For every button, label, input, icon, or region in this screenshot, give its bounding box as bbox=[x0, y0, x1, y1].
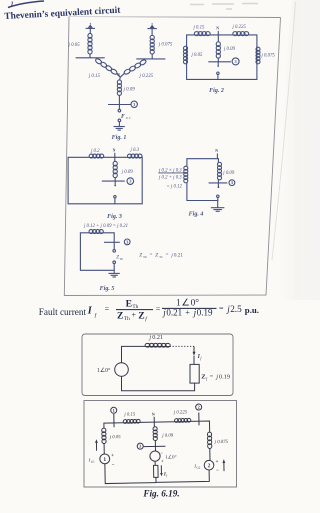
bus label 2 bbox=[196, 404, 202, 410]
svg-text:j 0.075: j 0.075 bbox=[261, 54, 276, 59]
svg-text:1∠0°: 1∠0° bbox=[165, 454, 176, 460]
bus 1 tick bbox=[113, 414, 115, 427]
svg-text:j 0.075: j 0.075 bbox=[158, 42, 173, 47]
inductor j0.225 (Fig 6.19) bbox=[175, 420, 190, 422]
wire from N down (Fig.3) bbox=[114, 157, 116, 162]
fraction bar 1 bbox=[116, 309, 153, 311]
wire: Fig.2 rectangle bbox=[187, 35, 257, 80]
svg-text:+: + bbox=[132, 310, 137, 319]
wire stub to fault point bbox=[118, 105, 120, 110]
bus 2 bar (Fig.1 right) bbox=[136, 58, 165, 60]
svg-text:Th: Th bbox=[124, 316, 130, 322]
ground (Fig.1) bbox=[114, 126, 125, 128]
wire bbox=[217, 74, 219, 79]
wire bbox=[118, 122, 120, 127]
frame box (middle figure) bbox=[82, 334, 233, 396]
frame box (Fig 6.19) bbox=[84, 401, 237, 488]
wire bbox=[151, 54, 153, 59]
wire stub below bus (Fig.2) bbox=[217, 62, 219, 66]
svg-text:j 0.075: j 0.075 bbox=[214, 440, 229, 445]
ground (Fig.4) bbox=[211, 207, 225, 209]
svg-text:Fig. 3: Fig. 3 bbox=[107, 214, 122, 220]
svg-text:j 0.12 + j 0.09 = j 0.21: j 0.12 + j 0.09 = j 0.21 bbox=[83, 224, 128, 229]
svg-text:1: 1 bbox=[103, 457, 106, 463]
bus 3 bar (Fig.3) bbox=[102, 180, 125, 182]
bus label 3 (Fig.1) bbox=[131, 101, 137, 107]
wire gen1 to bottom rail bbox=[105, 463, 156, 484]
svg-text:j 0.09: j 0.09 bbox=[223, 47, 236, 52]
wire bbox=[193, 356, 195, 365]
page edge line bbox=[272, 2, 296, 260]
arrow If bbox=[193, 346, 195, 353]
svg-text:+: + bbox=[111, 454, 114, 459]
node: right source terminal symbol bbox=[147, 28, 156, 30]
svg-text:j 0.225: j 0.225 bbox=[232, 25, 247, 30]
wire from N down (Fig.2) bbox=[217, 35, 219, 42]
generator 1 circle bbox=[103, 443, 105, 454]
node lower open terminal (Fig.1) bbox=[118, 119, 121, 122]
inductor j0.05 (Fig.2 left side) bbox=[183, 46, 187, 50]
impedance Zf rect (Fig 6.19) bbox=[154, 461, 156, 465]
impedance Zf box (middle figure) bbox=[190, 364, 199, 383]
inductor j0.075 (Fig.2 right side) bbox=[256, 47, 260, 51]
wire bottom bbox=[122, 376, 195, 390]
bus 3 bar (Fig.4) bbox=[209, 182, 228, 184]
svg-text:33: 33 bbox=[159, 255, 163, 259]
svg-text:j 0.09: j 0.09 bbox=[121, 170, 134, 175]
top rail wire bbox=[104, 421, 210, 430]
source 1 angle 0 circle (Fig 6.19) bbox=[150, 451, 160, 461]
svg-text:f: f bbox=[145, 316, 148, 323]
ground (Fig.5) bbox=[109, 272, 120, 274]
svg-text:j 0.05: j 0.05 bbox=[109, 435, 122, 440]
current IG1 arrow bbox=[95, 441, 97, 450]
svg-text:Fault current: Fault current bbox=[39, 307, 87, 317]
svg-text:Th: Th bbox=[120, 257, 124, 261]
svg-text:Th: Th bbox=[143, 255, 147, 259]
page edge shading right side bbox=[270, 0, 320, 300]
bus label 3 (Fig.3) bbox=[127, 178, 134, 185]
wire stub bbox=[113, 242, 115, 249]
node open terminal (Fig.2) bbox=[217, 72, 219, 74]
wire: Fig.3 rectangle bbox=[68, 157, 142, 204]
svg-text:=: = bbox=[105, 305, 110, 314]
node F open terminal (Fig.1) bbox=[118, 109, 121, 112]
wire bbox=[89, 28, 91, 34]
svg-text:E: E bbox=[126, 298, 132, 309]
wire stub below bus (Fig.4) bbox=[217, 183, 219, 187]
bus 1 bar (Fig.1 left) bbox=[76, 57, 105, 59]
current If arrow (Fig 6.19) bbox=[160, 465, 162, 474]
inductor j0.21 (middle figure) bbox=[146, 345, 170, 347]
svg-text:=: = bbox=[210, 374, 214, 380]
inductor j0.09 (Fig.1 middle) bbox=[117, 80, 121, 85]
svg-text:j 0.05: j 0.05 bbox=[68, 43, 81, 48]
wire: Fig.5 loop bbox=[80, 233, 114, 270]
svg-text:1: 1 bbox=[113, 408, 115, 413]
bus 3 bar (Fig.5) bbox=[104, 241, 120, 243]
wire bbox=[114, 177, 116, 181]
svg-text:N: N bbox=[215, 149, 218, 153]
wire stub below bus (Fig.3) bbox=[114, 181, 116, 185]
wire bbox=[154, 440, 156, 451]
svg-text:p.u.: p.u. bbox=[245, 305, 259, 315]
svg-text:j 0.09: j 0.09 bbox=[222, 171, 235, 176]
middle branch: wire from N down bbox=[153, 422, 155, 427]
svg-text:f: f bbox=[166, 474, 168, 478]
svg-text:Z: Z bbox=[138, 310, 144, 321]
wire right corner to coil bbox=[209, 428, 211, 433]
inductor j0.3 (Fig.3 top-right) bbox=[128, 156, 142, 158]
fraction bar bbox=[159, 172, 186, 174]
svg-text:j 0.09: j 0.09 bbox=[123, 88, 136, 93]
node open terminal (Fig.4) bbox=[217, 195, 219, 197]
inductor j0.2 (Fig.3 top-left) bbox=[90, 156, 104, 158]
svg-text:j 0.2: j 0.2 bbox=[90, 149, 100, 154]
inductor j0.05 (Fig 6.19 left) bbox=[102, 428, 106, 433]
svg-text:F: F bbox=[121, 114, 125, 120]
svg-text:1∠0°: 1∠0° bbox=[97, 367, 111, 374]
svg-text:N: N bbox=[152, 411, 155, 416]
svg-text:f: f bbox=[95, 312, 98, 319]
svg-text:−: − bbox=[112, 463, 115, 468]
current IG2 arrow bbox=[223, 461, 225, 471]
svg-text:0.19: 0.19 bbox=[219, 373, 230, 380]
svg-text:j 0.09: j 0.09 bbox=[161, 434, 174, 439]
svg-text:Fig. 1: Fig. 1 bbox=[112, 135, 127, 141]
svg-text:G1: G1 bbox=[91, 460, 95, 464]
inductor j0.05 (left generator, Fig.1) bbox=[88, 33, 92, 38]
inductor j0.075 (right generator, Fig.1) bbox=[150, 35, 154, 39]
node open terminal (Fig.3) bbox=[114, 196, 116, 198]
wire Zf to bottom rail bbox=[155, 477, 157, 482]
wire bbox=[89, 54, 91, 58]
svg-text:3: 3 bbox=[139, 444, 142, 449]
cropped handwriting remnant top-left bbox=[8, 1, 44, 8]
inductor j0.225 (Fig.1 right diagonal) bbox=[123, 59, 146, 75]
svg-text:2.5: 2.5 bbox=[230, 304, 242, 314]
svg-text:f: f bbox=[206, 376, 208, 381]
node open terminal lower (Fig.5) bbox=[113, 261, 116, 264]
svg-text:Z: Z bbox=[139, 252, 142, 258]
svg-text:j 0.15: j 0.15 bbox=[88, 74, 101, 79]
svg-text:Fig. 4: Fig. 4 bbox=[189, 212, 204, 218]
svg-text:3: 3 bbox=[231, 180, 234, 185]
wire junction at N bbox=[117, 73, 125, 80]
svg-text:=: = bbox=[166, 253, 169, 258]
svg-text:j: j bbox=[148, 334, 151, 341]
wire: Fig.4 rectangle bbox=[187, 159, 219, 201]
svg-text:j 0.225: j 0.225 bbox=[139, 74, 154, 79]
svg-text:0.21: 0.21 bbox=[174, 252, 183, 258]
svg-text:=: = bbox=[150, 253, 153, 258]
svg-text:j 0.2 + j 0.3: j 0.2 + j 0.3 bbox=[158, 175, 182, 180]
svg-text:+: + bbox=[185, 308, 190, 317]
node open terminal upper (Fig.5) bbox=[113, 250, 116, 253]
bus label 3 (Fig.5) bbox=[124, 239, 130, 245]
svg-text:N: N bbox=[113, 148, 116, 152]
inductor j0.12 (Fig.4 left side) bbox=[184, 166, 188, 170]
svg-text:= j 0.12: = j 0.12 bbox=[167, 185, 183, 190]
svg-text:Fig. 5: Fig. 5 bbox=[100, 286, 115, 292]
svg-text:Z: Z bbox=[117, 310, 123, 321]
svg-text:Fig. 2: Fig. 2 bbox=[209, 88, 224, 94]
inductor j0.09 (Fig 6.19 middle) bbox=[153, 427, 157, 431]
bus label 3 (Fig.2) bbox=[232, 58, 239, 65]
bus 3 bar (Fig.2) bbox=[208, 61, 231, 63]
inductor j0.09 (Fig.2 middle) bbox=[216, 42, 220, 47]
fraction bar 2 bbox=[162, 307, 217, 309]
svg-text:j 0.225: j 0.225 bbox=[173, 410, 188, 415]
svg-text:o c: o c bbox=[126, 116, 131, 120]
wire gen2 to bottom rail bbox=[156, 470, 210, 482]
inductor j0.15 (Fig.2 top-left) bbox=[195, 34, 210, 36]
wire bbox=[118, 95, 120, 105]
wire bbox=[113, 270, 115, 273]
svg-text:0.19: 0.19 bbox=[197, 308, 213, 318]
wire bbox=[217, 197, 219, 207]
svg-text:=: = bbox=[219, 304, 224, 313]
svg-text:Fig. 6.19.: Fig. 6.19. bbox=[142, 489, 179, 499]
svg-text:0.21: 0.21 bbox=[152, 334, 163, 341]
source 1 angle 0 (circle) bbox=[115, 363, 129, 377]
svg-text:3: 3 bbox=[234, 59, 237, 64]
svg-text:2: 2 bbox=[208, 463, 211, 469]
inductor j0.15 (Fig 6.19) bbox=[124, 421, 140, 423]
bus 3 bar (Fig 6.19) bbox=[144, 445, 165, 447]
svg-text:N: N bbox=[216, 27, 219, 31]
svg-text:f: f bbox=[200, 356, 202, 360]
svg-text:j 0.05: j 0.05 bbox=[191, 53, 204, 58]
svg-text:I: I bbox=[87, 305, 93, 316]
svg-text:G2: G2 bbox=[196, 466, 200, 470]
inductor j0.075 (Fig 6.19 right) bbox=[207, 432, 211, 437]
bus label 3 (Fig.4) bbox=[229, 180, 235, 186]
svg-text:0.21: 0.21 bbox=[166, 308, 182, 318]
svg-text:j 0.15: j 0.15 bbox=[193, 26, 206, 31]
svg-text:3: 3 bbox=[129, 179, 132, 184]
generator 2 circle bbox=[209, 448, 211, 460]
wire top bbox=[122, 346, 146, 362]
node: left source terminal symbol bbox=[86, 27, 95, 29]
svg-text:j: j bbox=[215, 373, 218, 380]
wire bbox=[151, 29, 153, 36]
svg-text:j 0.3: j 0.3 bbox=[130, 148, 140, 153]
wire bbox=[217, 58, 219, 62]
svg-text:Thevenin’s equivalent circuit: Thevenin’s equivalent circuit bbox=[4, 6, 121, 22]
svg-text:−: − bbox=[160, 452, 163, 457]
inductor j0.09 (Fig.4 right side) bbox=[217, 162, 221, 166]
dotted wire bbox=[170, 345, 194, 347]
inductor j0.09 (Fig.3 middle) bbox=[113, 161, 117, 166]
svg-text:3: 3 bbox=[133, 102, 136, 107]
bus 3 bar (Fig.1) bbox=[108, 104, 131, 106]
cropped print remnants top-right bbox=[190, 4, 258, 10]
svg-text:j 0.15: j 0.15 bbox=[123, 412, 136, 417]
svg-text:+: + bbox=[161, 460, 164, 465]
bus label 1 bbox=[111, 407, 117, 413]
inductor j0.15 (Fig.1 left diagonal) bbox=[95, 58, 118, 75]
wire bbox=[114, 198, 116, 204]
bus label 3 (Fig 6.19) bbox=[137, 443, 143, 449]
inductor j0.21 (Fig.5 top) bbox=[89, 232, 103, 234]
inductor j0.225 (Fig.2 top-right) bbox=[233, 34, 248, 36]
svg-text:3: 3 bbox=[126, 239, 129, 244]
bus 2 tick bbox=[198, 412, 200, 425]
svg-text:=: = bbox=[156, 305, 161, 314]
svg-text:Z: Z bbox=[155, 252, 158, 258]
svg-text:+: + bbox=[216, 460, 219, 465]
svg-text:−: − bbox=[216, 469, 219, 474]
svg-text:2: 2 bbox=[198, 405, 200, 410]
